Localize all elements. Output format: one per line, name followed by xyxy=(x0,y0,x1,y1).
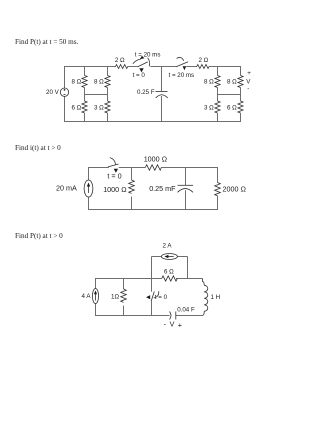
switch S2 arc xyxy=(177,57,184,60)
wire top left xyxy=(89,167,109,169)
resistor R 3ohm branch3 bottom xyxy=(217,95,219,102)
svg-text:-: - xyxy=(164,320,167,329)
wire bottom left xyxy=(95,315,170,317)
current source I3 2A xyxy=(161,254,177,260)
switch S3 arrow xyxy=(114,169,118,173)
svg-text:8 Ω: 8 Ω xyxy=(94,79,104,86)
svg-text:t = 20 ms: t = 20 ms xyxy=(169,72,195,79)
svg-text:0.25 mF: 0.25 mF xyxy=(149,184,176,193)
svg-text:1Ω: 1Ω xyxy=(111,294,119,301)
switch S1 blade xyxy=(137,62,147,67)
wire top left xyxy=(96,278,162,280)
svg-text:0.25 F: 0.25 F xyxy=(137,89,155,96)
resistor R 6ohm branch1 bottom xyxy=(84,95,86,102)
current source I1 20mA xyxy=(84,180,93,197)
resistor R 6ohm right rail bottom xyxy=(240,95,242,102)
resistor R 8ohm branch3 top xyxy=(217,66,219,76)
svg-text:+: + xyxy=(247,70,251,77)
resistor R 2000ohm right rail xyxy=(217,167,219,183)
wire left rail xyxy=(95,278,97,289)
resistor R 6ohm top xyxy=(162,276,178,281)
switch S3 arc xyxy=(110,158,116,165)
svg-text:20 mA: 20 mA xyxy=(56,184,77,193)
svg-text:Find P(t) at t = 50 ms.: Find P(t) at t = 50 ms. xyxy=(15,38,79,46)
svg-text:t = 0: t = 0 xyxy=(107,171,121,180)
svg-text:6 Ω: 6 Ω xyxy=(227,105,237,112)
switch S2 blade xyxy=(176,62,188,67)
svg-text:2 Ω: 2 Ω xyxy=(199,57,209,64)
inductor L1 lead bottom xyxy=(203,311,205,315)
switch S1 arc right xyxy=(148,58,150,67)
resistor R 8ohm branch1 top xyxy=(84,66,86,76)
svg-text:6 Ω: 6 Ω xyxy=(72,105,82,112)
wire top left xyxy=(65,66,116,68)
svg-text:0.04 F: 0.04 F xyxy=(177,307,195,314)
switch S1 arrow upper xyxy=(140,56,145,60)
svg-text:t = 0: t = 0 xyxy=(133,72,146,79)
switch S1 arc left xyxy=(133,59,141,63)
svg-text:1000 Ω: 1000 Ω xyxy=(144,154,168,163)
capacitor C3 0.04F left curved plate xyxy=(170,312,172,320)
svg-text:3 Ω: 3 Ω xyxy=(204,105,214,112)
svg-text:3 Ω: 3 Ω xyxy=(94,105,104,112)
inductor L1 1H lead top xyxy=(203,279,205,286)
resistor R 3ohm branch2 bottom xyxy=(107,95,109,102)
wire top right xyxy=(186,66,197,68)
svg-text:1000 Ω: 1000 Ω xyxy=(103,185,127,194)
svg-text:6 Ω: 6 Ω xyxy=(164,269,174,276)
svg-text:8 Ω: 8 Ω xyxy=(227,79,237,86)
switch S1 arrow lower xyxy=(139,68,143,72)
svg-text:8 Ω: 8 Ω xyxy=(204,79,214,86)
svg-text:1 H: 1 H xyxy=(211,294,221,301)
wire bottom xyxy=(88,209,218,211)
switch S4 wire lower xyxy=(151,301,153,316)
inductor L1 coil xyxy=(204,285,208,311)
capacitor C1 0.25F branch xyxy=(161,66,163,91)
wire 2A right down xyxy=(187,257,189,280)
svg-text:2 Ω: 2 Ω xyxy=(115,57,125,64)
svg-text:2 A: 2 A xyxy=(163,243,173,250)
svg-text:V: V xyxy=(246,78,251,85)
svg-text:V: V xyxy=(170,320,175,329)
switch S3 blade xyxy=(108,164,119,167)
resistor R 1000ohm vertical xyxy=(131,167,133,180)
wire mid right pair xyxy=(218,94,241,96)
svg-text:4 A: 4 A xyxy=(82,293,92,300)
svg-text:t = 20 ms: t = 20 ms xyxy=(135,52,161,59)
current source I2 4A xyxy=(92,289,98,304)
current source I3 2A branch wires xyxy=(152,256,162,258)
resistor R 1ohm xyxy=(123,278,125,289)
wire top mid xyxy=(119,167,146,169)
svg-text:t = 0: t = 0 xyxy=(155,294,168,301)
resistor R 2ohm top second xyxy=(197,65,209,69)
resistor R 2ohm top first xyxy=(116,65,128,69)
wire top left b xyxy=(128,66,138,68)
wire bottom xyxy=(64,121,241,123)
wire left rail upper xyxy=(64,66,66,88)
switch S4 arc xyxy=(154,291,159,298)
svg-text:Find i(t) at t > 0: Find i(t) at t > 0 xyxy=(15,144,61,152)
wire top right xyxy=(161,167,217,169)
svg-text:20 V: 20 V xyxy=(46,89,60,96)
resistor R 8ohm right rail top xyxy=(240,66,242,76)
wire left rail lower xyxy=(64,96,66,122)
wire top right b xyxy=(209,66,241,68)
svg-text:Find P(t) at t > 0: Find P(t) at t > 0 xyxy=(15,232,63,240)
switch S4 blade xyxy=(151,292,154,302)
switch S2 arrow xyxy=(183,66,187,70)
wire bottom right xyxy=(176,315,203,317)
switch S4 wire upper xyxy=(151,257,153,292)
capacitor C2 0.25mF branch xyxy=(185,167,187,185)
svg-text:-: - xyxy=(247,85,249,92)
wire mid left pair xyxy=(85,94,108,96)
wire top mid xyxy=(150,66,176,68)
capacitor C3 right plate xyxy=(175,312,177,320)
svg-text:+: + xyxy=(178,320,182,329)
resistor R 8ohm branch2 top xyxy=(107,66,109,76)
resistor R 1000ohm top xyxy=(145,165,161,170)
wire left rail xyxy=(88,167,90,180)
svg-text:8 Ω: 8 Ω xyxy=(72,79,82,86)
switch S4 arrow xyxy=(146,295,150,299)
svg-text:2000 Ω: 2000 Ω xyxy=(223,185,247,194)
voltage source V1 20V xyxy=(60,88,68,96)
wire top right xyxy=(176,278,203,280)
